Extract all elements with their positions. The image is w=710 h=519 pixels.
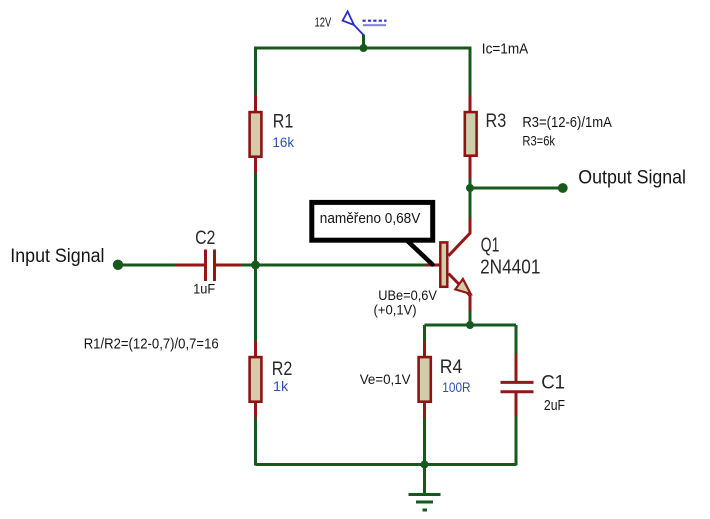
svg-text:(+0,1V): (+0,1V) — [374, 303, 417, 318]
svg-text:R3: R3 — [486, 111, 507, 132]
svg-text:R2: R2 — [272, 359, 293, 380]
svg-text:1k: 1k — [273, 378, 289, 394]
svg-text:UBe=0,6V: UBe=0,6V — [378, 288, 437, 303]
svg-text:16k: 16k — [272, 134, 295, 150]
svg-text:Ve=0,1V: Ve=0,1V — [360, 372, 411, 387]
svg-text:R1: R1 — [273, 111, 294, 132]
svg-text:R1/R2=(12-0,7)/0,7=16: R1/R2=(12-0,7)/0,7=16 — [84, 336, 219, 352]
svg-text:R4: R4 — [440, 357, 463, 378]
svg-text:C1: C1 — [541, 371, 565, 393]
svg-text:2N4401: 2N4401 — [480, 257, 540, 279]
svg-text:100R: 100R — [442, 379, 470, 395]
svg-text:R3=(12-6)/1mA: R3=(12-6)/1mA — [522, 115, 612, 131]
svg-text:Input Signal: Input Signal — [10, 246, 104, 267]
svg-text:Q1: Q1 — [481, 235, 500, 257]
svg-text:1uF: 1uF — [193, 282, 215, 297]
svg-text:12V: 12V — [315, 16, 332, 30]
svg-text:Ic=1mA: Ic=1mA — [482, 42, 529, 58]
svg-text:2uF: 2uF — [544, 398, 565, 414]
svg-text:R3=6k: R3=6k — [522, 132, 555, 148]
svg-text:C2: C2 — [195, 227, 215, 249]
svg-text:Output Signal: Output Signal — [578, 167, 686, 188]
svg-text:naměřeno 0,68V: naměřeno 0,68V — [320, 211, 421, 227]
